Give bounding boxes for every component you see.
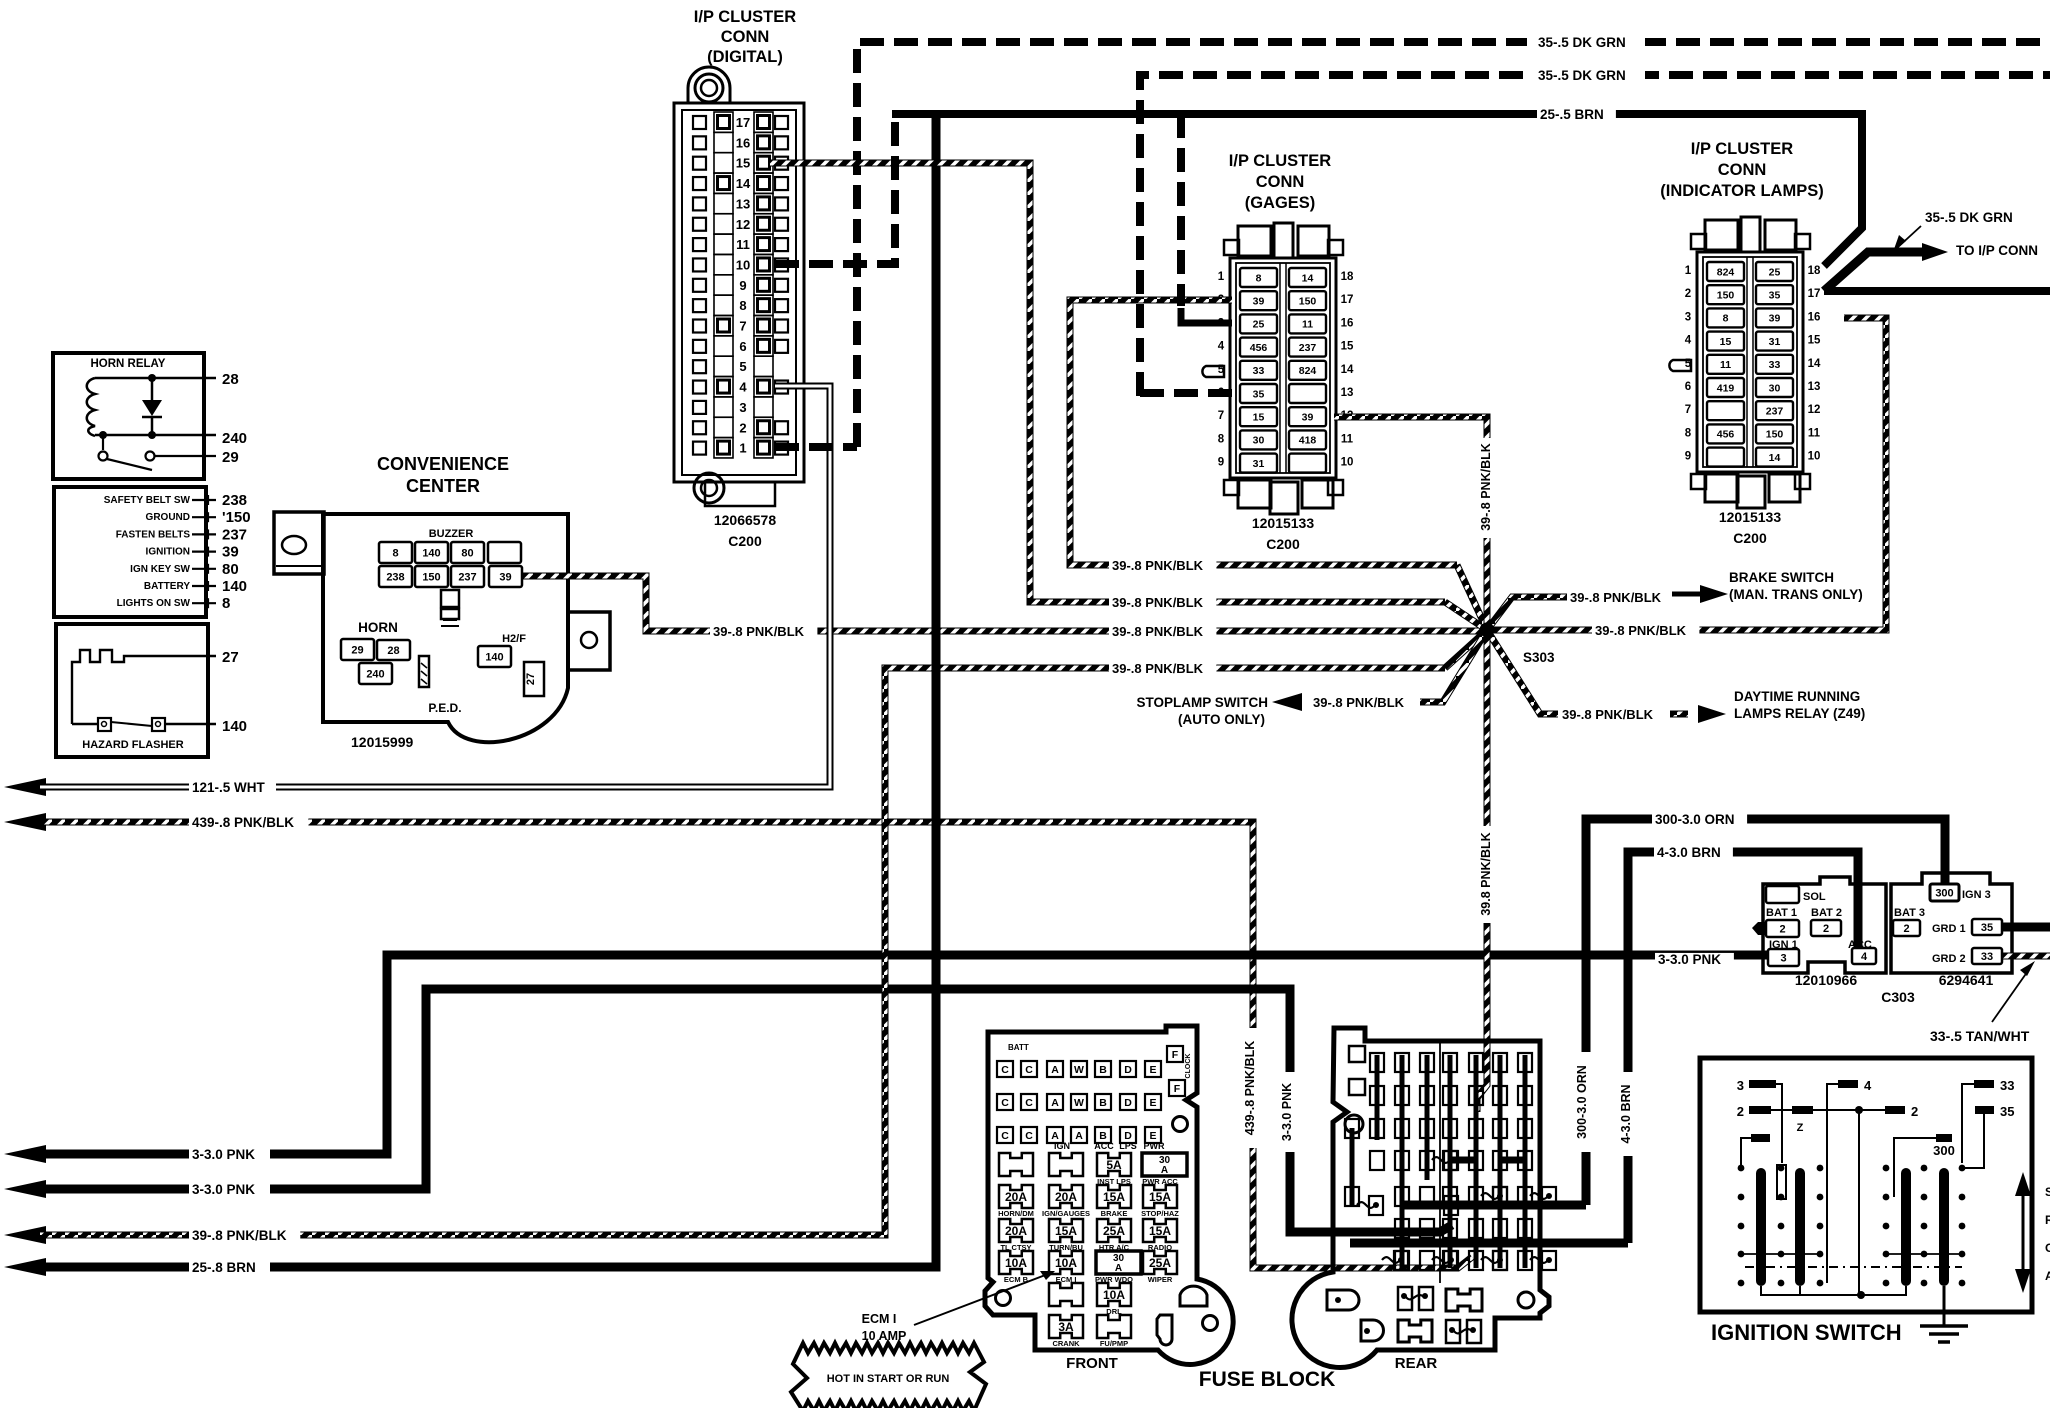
wire 439-.8 PNK/BLK with left arrow <box>4 813 46 831</box>
rear terminal col7 row4 <box>1518 1151 1532 1170</box>
rear terminal col4 row5 <box>1443 1187 1457 1206</box>
svg-text:39: 39 <box>222 544 239 561</box>
svg-text:3A: 3A <box>1058 1320 1074 1334</box>
svg-text:10A: 10A <box>1103 1288 1125 1302</box>
BAT3 pin 2 cell <box>1893 920 1920 936</box>
ignition switch bottom bus <box>1761 1286 1906 1295</box>
svg-text:35-.5 DK GRN: 35-.5 DK GRN <box>1538 68 1626 83</box>
front block left tab hole <box>996 1291 1011 1306</box>
svg-text:11: 11 <box>1341 433 1354 445</box>
svg-text:H2/F: H2/F <box>502 633 526 645</box>
svg-text:1: 1 <box>739 441 746 456</box>
svg-text:C: C <box>1001 1097 1009 1109</box>
svg-text:7: 7 <box>739 319 746 334</box>
rear terminal col2 row2 <box>1395 1086 1409 1105</box>
svg-text:35: 35 <box>1981 922 1993 934</box>
buzzer element below 150 <box>441 590 459 607</box>
fuse TL CTSY 20A <box>999 1219 1033 1242</box>
ignition switch wiper bars <box>1756 1168 1766 1286</box>
svg-text:3-3.0 PNK: 3-3.0 PNK <box>192 1147 255 1162</box>
svg-text:2: 2 <box>1911 1104 1918 1119</box>
wire 121-.5 WHT with left arrow <box>4 778 46 796</box>
svg-text:HORN/DM: HORN/DM <box>998 1209 1034 1218</box>
rear H pad 1 <box>1446 1289 1482 1311</box>
svg-text:8: 8 <box>1256 272 1262 284</box>
svg-text:HORN RELAY: HORN RELAY <box>91 358 166 370</box>
terminal letter W row1 <box>1071 1061 1087 1077</box>
connector pin5 side tab <box>1669 360 1691 371</box>
svg-text:IGN/GAUGES: IGN/GAUGES <box>1042 1209 1090 1218</box>
svg-text:419: 419 <box>1717 382 1735 394</box>
svg-text:4-3.0 BRN: 4-3.0 BRN <box>1619 1084 1633 1143</box>
svg-text:STOPLAMP SWITCH: STOPLAMP SWITCH <box>1136 695 1268 710</box>
svg-text:S303: S303 <box>1523 650 1555 665</box>
svg-text:2: 2 <box>1779 923 1785 935</box>
wire 39-.8 PNK/BLK left arrow to S303 <box>4 1226 46 1244</box>
svg-text:14: 14 <box>1769 452 1781 464</box>
3-3.0 PNK label on wire to IGN1 <box>1655 953 1734 967</box>
svg-text:8: 8 <box>392 547 398 559</box>
rear terminal col6 row1 <box>1493 1053 1507 1072</box>
brake switch arrow <box>1672 592 1712 597</box>
vertical label 3-3.0 PNK <box>1280 1072 1299 1152</box>
svg-text:10A: 10A <box>1055 1256 1077 1270</box>
terminal letter A row3 <box>1047 1127 1063 1143</box>
fuse BRAKE 15A <box>1097 1185 1131 1208</box>
stoplamp arrow <box>1272 693 1302 711</box>
svg-text:REAR: REAR <box>1395 1355 1438 1372</box>
horn relay diode CR1 <box>151 378 154 400</box>
svg-text:39: 39 <box>1769 313 1781 325</box>
wire S303 to brake switch <box>1487 597 1567 630</box>
wire from digital pin 4 double line <box>775 386 830 390</box>
svg-text:I/P CLUSTER: I/P CLUSTER <box>1229 152 1331 170</box>
rear terminal col6 row6 <box>1493 1219 1507 1238</box>
connector top tabs <box>1705 220 1738 250</box>
svg-text:15A: 15A <box>1149 1190 1171 1204</box>
rear fuse link squiggle <box>1432 1257 1450 1263</box>
svg-text:14: 14 <box>1808 358 1821 370</box>
svg-text:4: 4 <box>1218 341 1225 353</box>
svg-text:39: 39 <box>499 571 511 583</box>
svg-text:39-.8 PNK/BLK: 39-.8 PNK/BLK <box>1112 558 1204 573</box>
svg-text:I/P CLUSTER: I/P CLUSTER <box>1691 140 1793 158</box>
svg-text:17: 17 <box>1341 294 1354 306</box>
svg-text:237: 237 <box>1299 342 1317 354</box>
svg-text:P.E.D.: P.E.D. <box>428 701 461 715</box>
fuse RADIO 15A <box>1143 1219 1177 1242</box>
svg-text:5: 5 <box>739 359 746 374</box>
svg-text:(MAN. TRANS ONLY): (MAN. TRANS ONLY) <box>1729 587 1863 602</box>
svg-text:12066578: 12066578 <box>714 512 777 528</box>
svg-text:TO I/P CONN: TO I/P CONN <box>1956 243 2038 258</box>
rear fuse link squiggle <box>1530 1193 1548 1199</box>
svg-text:39-.8 PNK/BLK: 39-.8 PNK/BLK <box>1313 695 1405 710</box>
svg-text:29: 29 <box>222 449 239 466</box>
svg-text:39-.8 PNK/BLK: 39-.8 PNK/BLK <box>1112 624 1204 639</box>
svg-text:4-3.0 BRN: 4-3.0 BRN <box>1657 845 1721 860</box>
svg-text:140: 140 <box>422 547 440 559</box>
svg-text:W: W <box>1074 1064 1084 1076</box>
svg-text:FUSE BLOCK: FUSE BLOCK <box>1199 1368 1336 1391</box>
connector body <box>1697 252 1803 472</box>
rear H pad 2 <box>1398 1320 1432 1342</box>
svg-text:ACC: ACC <box>1094 1141 1114 1151</box>
rear terminal col4 row4 <box>1443 1151 1457 1170</box>
buzzer fuse row 1 <box>379 542 412 563</box>
rear block bottom pads <box>1327 1290 1359 1310</box>
svg-text:C: C <box>1001 1130 1009 1142</box>
svg-text:2: 2 <box>1903 923 1909 935</box>
svg-text:1: 1 <box>1685 265 1692 277</box>
svg-text:456: 456 <box>1717 429 1735 441</box>
svg-text:D: D <box>1124 1064 1132 1076</box>
svg-text:(DIGITAL): (DIGITAL) <box>707 48 783 66</box>
svg-text:150: 150 <box>1299 295 1317 307</box>
svg-text:IGNITION SWITCH: IGNITION SWITCH <box>1711 1320 1902 1345</box>
svg-text:SOL: SOL <box>1803 891 1826 903</box>
rear terminal col3 row1 <box>1420 1053 1434 1072</box>
svg-text:12: 12 <box>1808 404 1821 416</box>
rear terminal col6 row2 <box>1493 1086 1507 1105</box>
H2/F fuse 140 <box>478 646 511 667</box>
svg-text:28: 28 <box>222 371 239 388</box>
svg-text:3: 3 <box>1685 311 1691 323</box>
svg-text:80: 80 <box>222 561 239 578</box>
svg-text:35: 35 <box>1769 289 1781 301</box>
svg-text:8: 8 <box>1218 433 1225 445</box>
svg-text:C200: C200 <box>728 533 762 549</box>
svg-text:3: 3 <box>1737 1078 1744 1093</box>
svg-text:237: 237 <box>1766 405 1784 417</box>
vertical label 4-3.0 BRN <box>1618 1072 1637 1156</box>
horn relay switch contacts <box>102 435 104 450</box>
svg-text:BAT 1: BAT 1 <box>1766 907 1797 919</box>
svg-text:80: 80 <box>461 547 473 559</box>
svg-text:C200: C200 <box>1266 536 1300 552</box>
svg-text:39-.8 PNK/BLK: 39-.8 PNK/BLK <box>1112 595 1204 610</box>
fuse FU/PMP <box>1097 1315 1131 1338</box>
fuse PWR ACC R30 <box>1142 1153 1187 1176</box>
svg-text:4: 4 <box>1864 1078 1872 1093</box>
svg-text:B: B <box>1099 1064 1107 1076</box>
BAT2 pin 2 cell <box>1811 920 1841 936</box>
svg-text:35: 35 <box>2000 1104 2014 1119</box>
svg-text:3-3.0 PNK: 3-3.0 PNK <box>1280 1083 1294 1141</box>
fuse CRANK 3A <box>1049 1315 1083 1338</box>
horn relay bottom wire to 240 <box>95 434 216 437</box>
svg-text:LAMPS RELAY (Z49): LAMPS RELAY (Z49) <box>1734 706 1865 721</box>
digital conn body <box>674 103 804 482</box>
rear terminal col7 row1 <box>1518 1053 1532 1072</box>
svg-text:238: 238 <box>222 492 247 509</box>
wire indicator pin17 right off page <box>1824 287 2050 295</box>
svg-text:HORN: HORN <box>358 620 398 635</box>
svg-text:30: 30 <box>1253 435 1265 447</box>
svg-text:HOT IN START OR RUN: HOT IN START OR RUN <box>827 1373 950 1385</box>
svg-text:15A: 15A <box>1103 1190 1125 1204</box>
wire 3-3.0 PNK #2 with left arrow <box>4 1180 46 1198</box>
ignition switch row link lines <box>1741 1253 1820 1255</box>
svg-text:C303: C303 <box>1881 989 1915 1005</box>
rear terminal col7 row3 <box>1518 1119 1532 1138</box>
rear block extra bar col0 <box>1350 1128 1355 1205</box>
svg-text:6294641: 6294641 <box>1939 972 1994 988</box>
wire S303 down to rear fuse block (39-.8 PNK/BLK) <box>1477 630 1487 1112</box>
rear terminal col7 row2 <box>1518 1086 1532 1105</box>
svg-text:33-.5 TAN/WHT: 33-.5 TAN/WHT <box>1930 1028 2030 1044</box>
horn fuse 29 <box>341 639 374 660</box>
terminal letter A row3 <box>1071 1127 1087 1143</box>
svg-text:11: 11 <box>736 237 750 252</box>
svg-text:3-3.0 PNK: 3-3.0 PNK <box>1658 952 1721 967</box>
GRD1 pin 35 cell <box>1972 919 2002 935</box>
SOL cell <box>1766 886 1799 903</box>
terminal letter W row2 <box>1071 1094 1087 1110</box>
svg-text:10: 10 <box>1341 457 1354 469</box>
svg-text:3-3.0 PNK: 3-3.0 PNK <box>192 1182 255 1197</box>
svg-text:13: 13 <box>1341 387 1354 399</box>
svg-text:WIPER: WIPER <box>1148 1275 1173 1284</box>
svg-text:13: 13 <box>1808 381 1821 393</box>
terminal letter E row3 <box>1145 1127 1161 1143</box>
rear fuse link squiggle <box>1481 1193 1499 1199</box>
connector bottom tabs <box>1238 480 1271 508</box>
svg-text:418: 418 <box>1299 435 1317 447</box>
svg-text:14: 14 <box>1302 272 1314 284</box>
svg-text:C: C <box>1025 1064 1033 1076</box>
fuse HORN/DM 20A <box>999 1185 1033 1208</box>
rear block H link 1 <box>1450 1157 1476 1164</box>
svg-text:25A: 25A <box>1149 1256 1171 1270</box>
svg-text:4: 4 <box>1861 951 1868 963</box>
svg-text:CRANK: CRANK <box>1052 1339 1080 1348</box>
ignition switch pin 300 <box>1936 1134 1952 1142</box>
svg-text:FU/PMP: FU/PMP <box>1100 1339 1128 1348</box>
rear fuse link squiggle <box>1382 1257 1400 1263</box>
fuse blank <box>1049 1153 1083 1176</box>
svg-text:39-.8 PNK/BLK: 39-.8 PNK/BLK <box>1562 707 1654 722</box>
terminal F cell 1 <box>1167 1046 1183 1062</box>
svg-text:150: 150 <box>1717 289 1735 301</box>
hazard flasher box <box>56 624 208 757</box>
BAT1 pin 2 cell <box>1766 920 1799 937</box>
svg-text:9: 9 <box>739 278 746 293</box>
ignition switch pin 33 <box>1974 1080 1994 1088</box>
fuse blank <box>999 1153 1033 1176</box>
rear terminal col7 row5 <box>1518 1187 1532 1206</box>
fuse TURN/BU 15A <box>1049 1219 1083 1242</box>
rear terminal col4 row3 <box>1443 1119 1457 1138</box>
horn fuse 28 <box>377 640 410 660</box>
rear fuse link squiggle <box>1432 1202 1450 1208</box>
terminal letter B row1 <box>1095 1061 1111 1077</box>
wire from digital pin 15 (39 PNK/BLK) <box>770 163 1445 602</box>
svg-text:39-.8 PNK/BLK: 39-.8 PNK/BLK <box>192 1228 287 1243</box>
svg-text:FASTEN BELTS: FASTEN BELTS <box>116 529 191 540</box>
rear terminal col4 row6 <box>1443 1219 1457 1238</box>
svg-text:25: 25 <box>1253 319 1265 331</box>
rear terminal col4 row2 <box>1443 1086 1457 1105</box>
svg-text:E: E <box>1149 1097 1156 1109</box>
front fuse block outline <box>985 1026 1233 1364</box>
svg-text:6: 6 <box>739 339 746 354</box>
svg-text:BRAKE SWITCH: BRAKE SWITCH <box>1729 570 1834 585</box>
wire from digital pin 10 dashed <box>775 118 895 264</box>
svg-text:STOP/HAZ: STOP/HAZ <box>1141 1209 1179 1218</box>
svg-text:25: 25 <box>1769 266 1781 278</box>
vertical label 39.8 PNK/BLK below S303 <box>1478 826 1496 923</box>
rear terminal col6 row5 <box>1493 1187 1507 1206</box>
rear fuse block outline <box>1292 1028 1549 1367</box>
wire 300 ORN into rear block <box>1402 1201 1586 1210</box>
svg-text:R: R <box>2045 1213 2050 1227</box>
rear terminal col7 row7 <box>1518 1251 1532 1270</box>
svg-text:ECM I: ECM I <box>862 1312 897 1326</box>
fuse INST LPS 5A <box>1097 1153 1131 1176</box>
svg-text:GROUND: GROUND <box>146 512 190 523</box>
svg-text:20A: 20A <box>1055 1190 1077 1204</box>
front block right hole <box>1173 1117 1188 1132</box>
terminal letter E row2 <box>1145 1094 1161 1110</box>
svg-text:439-.8 PNK/BLK: 439-.8 PNK/BLK <box>192 815 294 830</box>
wire GRD2 33 hatched right off page <box>2002 953 2050 960</box>
svg-text:16: 16 <box>736 135 750 150</box>
svg-text:IGN KEY SW: IGN KEY SW <box>130 564 190 575</box>
svg-text:238: 238 <box>386 571 404 583</box>
svg-text:4: 4 <box>739 380 747 395</box>
svg-text:11: 11 <box>1720 359 1731 371</box>
svg-text:10: 10 <box>736 257 750 272</box>
svg-text:16: 16 <box>1341 317 1354 329</box>
svg-text:IGNITION: IGNITION <box>146 547 190 558</box>
svg-text:CENTER: CENTER <box>406 476 480 496</box>
wire 4 BRN into rear block <box>1350 1239 1628 1248</box>
svg-text:5A: 5A <box>1106 1158 1122 1172</box>
svg-text:11: 11 <box>1302 319 1313 331</box>
svg-text:IGN 3: IGN 3 <box>1962 889 1991 901</box>
connector top tabs <box>1238 226 1271 256</box>
wire gages pin2 (39 PNK/BLK) <box>1070 300 1457 565</box>
svg-text:A: A <box>1051 1064 1059 1076</box>
rear terminal col2 row6 <box>1395 1219 1409 1238</box>
rear terminal col1 row4 <box>1370 1151 1384 1170</box>
svg-text:27: 27 <box>525 673 537 685</box>
svg-text:35-.5 DK GRN: 35-.5 DK GRN <box>1538 35 1626 50</box>
svg-text:8: 8 <box>1723 313 1729 325</box>
svg-text:BATTERY: BATTERY <box>144 581 190 592</box>
fuse HTR A/C 25A <box>1097 1219 1131 1242</box>
svg-text:'150: '150 <box>222 509 251 526</box>
rear terminal col5 row3 <box>1469 1119 1483 1138</box>
svg-text:2: 2 <box>1823 923 1829 935</box>
svg-text:33: 33 <box>2000 1078 2014 1093</box>
rear block right hole <box>1518 1292 1534 1308</box>
svg-text:439-.8 PNK/BLK: 439-.8 PNK/BLK <box>1243 1041 1257 1135</box>
svg-text:I/P CLUSTER: I/P CLUSTER <box>694 8 796 26</box>
svg-text:14: 14 <box>1341 364 1354 376</box>
rear terminal col5 row5 <box>1469 1187 1483 1206</box>
svg-text:20A: 20A <box>1005 1224 1027 1238</box>
wire 25-.8 BRN with left arrow <box>4 1258 46 1276</box>
svg-text:150: 150 <box>1766 429 1784 441</box>
svg-text:25-.5 BRN: 25-.5 BRN <box>1540 107 1604 122</box>
svg-text:8: 8 <box>222 595 230 612</box>
vertical label 39-.8 PNK/BLK above S303 <box>1478 438 1496 538</box>
svg-text:C200: C200 <box>1733 530 1767 546</box>
svg-text:A: A <box>1115 1263 1122 1274</box>
svg-text:3: 3 <box>1780 952 1786 964</box>
svg-text:CLOCK: CLOCK <box>1185 1054 1192 1079</box>
svg-text:SAFETY BELT SW: SAFETY BELT SW <box>104 495 191 506</box>
svg-text:17: 17 <box>1808 288 1821 300</box>
svg-text:2: 2 <box>739 420 746 435</box>
wire indicator pin17 to TO I/P CONN arrow <box>1824 252 1930 291</box>
rear terminal col3 row2 <box>1420 1086 1434 1105</box>
svg-text:12010966: 12010966 <box>1795 972 1858 988</box>
svg-text:300: 300 <box>1935 887 1953 899</box>
rear terminal col2 row3 <box>1395 1119 1409 1138</box>
IGN1 pin 3 cell <box>1768 949 1799 966</box>
rear terminal col4 row1 <box>1443 1053 1457 1072</box>
svg-text:39-.8 PNK/BLK: 39-.8 PNK/BLK <box>1595 623 1687 638</box>
svg-text:31: 31 <box>1253 458 1265 470</box>
rear terminal col5 row6 <box>1469 1219 1483 1238</box>
pin 3 contact bar <box>1777 1165 1786 1199</box>
ignition switch box <box>1700 1058 2032 1312</box>
svg-text:16: 16 <box>1808 311 1821 323</box>
rear terminal col1 row1 <box>1370 1053 1384 1072</box>
svg-text:300: 300 <box>1933 1143 1955 1158</box>
wire gages pin12 down to S303 <box>1334 417 1487 630</box>
rear terminal col1 row3 <box>1370 1119 1384 1138</box>
fuse DRL 10A <box>1097 1283 1131 1306</box>
svg-text:15: 15 <box>1341 341 1354 353</box>
rear fuse link squiggle <box>1481 1257 1499 1263</box>
svg-text:6: 6 <box>1685 381 1691 393</box>
connector 6294641 body <box>1891 873 2012 973</box>
rear terminal col5 row2 <box>1469 1086 1483 1105</box>
svg-text:15: 15 <box>1808 335 1821 347</box>
terminal letter C row1 <box>1021 1061 1037 1077</box>
svg-text:CONN: CONN <box>1718 161 1767 179</box>
connector pin5 side tab <box>1202 366 1224 377</box>
svg-text:33: 33 <box>1253 365 1265 377</box>
svg-text:7: 7 <box>1218 410 1224 422</box>
wire GRD1 35 right off page <box>2002 923 2050 932</box>
svg-text:39: 39 <box>1302 411 1314 423</box>
GRD2 pin 33 cell <box>1972 948 2002 964</box>
svg-text:18: 18 <box>1341 271 1354 283</box>
svg-text:Z: Z <box>1797 1122 1804 1134</box>
svg-text:E: E <box>1149 1064 1156 1076</box>
hot in start or run starburst <box>791 1343 986 1411</box>
svg-text:30: 30 <box>1769 382 1781 394</box>
rear block small squares <box>1349 1046 1365 1062</box>
terminal letter E row1 <box>1145 1061 1161 1077</box>
horn relay coil L1 <box>87 378 95 436</box>
ignition switch dashed position line <box>1745 1266 1962 1268</box>
terminal letter B row2 <box>1095 1094 1111 1110</box>
digital conn top mounting ear <box>688 67 730 103</box>
wire 25-.5 BRN solid bus <box>892 110 1866 118</box>
wire from digital pin 1 dashed <box>775 443 857 451</box>
svg-text:9: 9 <box>1685 451 1691 463</box>
svg-text:C: C <box>1001 1064 1009 1076</box>
svg-text:140: 140 <box>485 651 503 663</box>
svg-text:31: 31 <box>1769 336 1781 348</box>
rear block bus bar col3 <box>1425 1055 1430 1180</box>
